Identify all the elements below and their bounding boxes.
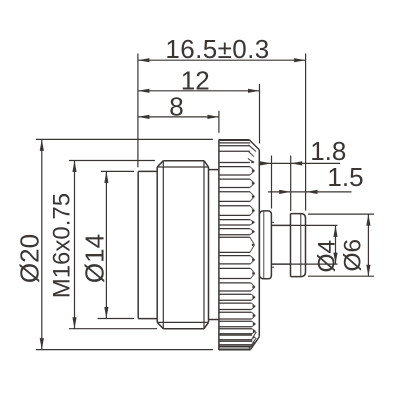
node dim-O14 collar diameter dimension O14 [80, 171, 135, 318]
svg-text:16.5±0.3: 16.5±0.3 [165, 34, 269, 64]
svg-text:12: 12 [181, 65, 210, 95]
svg-text:8: 8 [169, 91, 183, 121]
wire extension line shaft end [305, 54, 307, 211]
node dim-1.8 groove width dimension 1.8 [260, 136, 347, 166]
wire extension line left face [137, 54, 139, 168]
node barrel-collar small collar behind wheel [259, 211, 271, 279]
node dim-8 length dimension 8 [138, 91, 219, 121]
svg-text:M16x0.75: M16x0.75 [49, 193, 76, 298]
wire extension line groove right [290, 156, 292, 212]
svg-text:Ø4: Ø4 [313, 240, 340, 273]
node knurled-wheel serrated adjustment wheel O20 [219, 139, 259, 350]
svg-text:Ø20: Ø20 [15, 234, 45, 283]
svg-text:Ø14: Ø14 [80, 234, 110, 283]
svg-text:Ø6: Ø6 [340, 239, 367, 272]
node dim-12 length dimension 12 [138, 65, 260, 95]
svg-text:1.5: 1.5 [327, 162, 363, 192]
node dim-O6 cap diameter dimension O6 [308, 214, 374, 276]
wire extension line groove left [271, 156, 273, 209]
node collar-O14 left collar of body [138, 171, 157, 318]
wire extension line wheel right face [259, 84, 261, 144]
node M16-body threaded body M16x0.75 [157, 161, 208, 329]
node dim-1.5 cap width dimension 1.5 [268, 162, 364, 194]
wire extension line wheel left face [218, 111, 220, 133]
node dim-O20 wheel diameter dimension O20 [15, 139, 213, 349]
node dim-O4 groove diameter dimension O4 [291, 225, 341, 272]
node dim-16.5 overall length dimension 16.5 plus-minus 0.3 [138, 34, 306, 64]
node neck thread relief neck [209, 170, 219, 320]
node O4-neck shaft groove O4 [271, 222, 290, 267]
node O6-cap shaft end cap O6 [291, 214, 306, 277]
node dim-M16 thread dimension M16x0.75 [49, 161, 158, 329]
